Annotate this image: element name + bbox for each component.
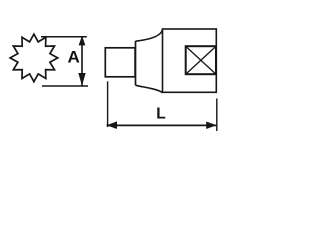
svg-text:A: A (68, 48, 80, 67)
svg-text:L: L (156, 105, 165, 122)
